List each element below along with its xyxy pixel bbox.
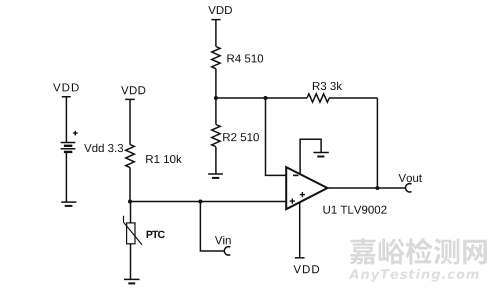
junction output node <box>375 186 379 190</box>
wire PTC to ground <box>130 244 132 279</box>
wire node A horizontal to op-amp +in <box>130 201 286 203</box>
wire battery to ground <box>65 153 67 202</box>
label VDD (battery branch) <box>53 84 79 92</box>
resistor R4 <box>212 47 220 69</box>
wire node B to R3 <box>216 97 307 99</box>
label R1 10k <box>146 155 182 163</box>
label R3 3k <box>313 82 342 90</box>
junction node A <box>128 200 132 204</box>
label U1 TLV9002 <box>323 206 386 214</box>
watermark AnyTesting.com <box>349 269 479 282</box>
junction node B <box>214 96 218 100</box>
wire node B to R2 <box>215 98 217 125</box>
wire op-amp V+ pin to VDD <box>299 202 301 258</box>
wire R2 to ground <box>215 147 217 174</box>
junction inverting branch <box>264 96 268 100</box>
ground (PTC) <box>124 279 140 283</box>
thermistor PTC <box>124 216 143 245</box>
port Vin <box>224 247 230 255</box>
power flag VDD (battery branch) <box>62 97 71 142</box>
power flag VDD (R1 branch) <box>125 99 135 144</box>
wire node A to PTC <box>130 202 132 223</box>
resistor R2 <box>212 125 220 147</box>
label R2 510 <box>223 133 259 141</box>
resistor R3 <box>307 94 329 102</box>
label PTC <box>147 231 165 238</box>
label VDD (R4 branch) <box>208 6 232 14</box>
label VDD (R1 branch) <box>121 86 145 94</box>
ground (op-amp) <box>313 153 328 157</box>
label R4 510 <box>227 54 263 62</box>
label VDD (op-amp supply) <box>294 265 320 273</box>
wire node A to Vin port <box>200 202 224 252</box>
wire op-amp V- pin to ground <box>300 139 321 174</box>
battery V1 Vdd 3.3 <box>61 131 78 152</box>
label Vdd 3.3 <box>84 144 123 152</box>
wire R1 to node A <box>129 168 131 202</box>
port Vout <box>406 184 412 192</box>
label Vout <box>399 174 423 182</box>
junction Vin tap <box>198 200 202 204</box>
op-amp U1 <box>286 167 327 209</box>
watermark 嘉峪检测网 <box>350 238 487 265</box>
wire R4 to node B <box>215 69 217 98</box>
wire right vertical to output node <box>376 98 378 188</box>
resistor R1 <box>126 145 135 168</box>
wire R3 to right vertical <box>329 97 377 99</box>
label Vin <box>215 236 231 244</box>
power flag VDD (op-amp supply) <box>295 257 305 259</box>
wire node B down branch to inverting input <box>266 98 287 175</box>
power flag VDD (R4 branch) <box>211 20 220 47</box>
wire op-amp output to Vout <box>327 187 405 189</box>
ground (R2) <box>208 174 223 178</box>
ground (battery) <box>61 202 76 206</box>
